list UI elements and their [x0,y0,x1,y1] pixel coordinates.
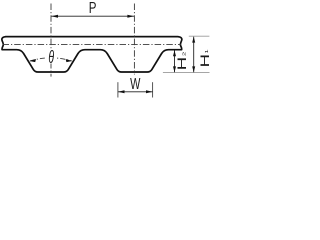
H1 top extension line [189,35,210,37]
baseline reference (tooth bottom level) [163,71,210,73]
arrowhead H2 bottom [173,66,176,72]
dimension line H1 [193,37,195,73]
pitch line (horizontal dash-dot) [3,44,182,46]
dimension line H2 [174,50,176,72]
svg-text:θ: θ [48,48,54,67]
theta label backing [47,50,56,64]
arrowhead W right [146,90,153,93]
svg-text:H2: H2 [176,51,189,70]
W extension line right [152,82,154,97]
theta dimension arc (dash-dot) [30,58,72,61]
arrowhead P right [127,15,134,18]
arrowhead H1 bottom [192,66,195,72]
W extension line left [117,82,119,97]
belt profile outline [2,37,182,72]
dimension line W [118,91,153,93]
centerline tooth 2 (vertical dash-dot) [133,4,135,75]
arrowhead W left [118,90,125,93]
arrowhead P left [51,15,58,18]
centerline tooth 1 (vertical dash-dot) [50,4,52,77]
dimension line P [51,15,134,17]
belt top edge [5,36,179,38]
arrowhead H1 top [192,37,195,43]
svg-text:P: P [89,0,97,17]
arrowhead theta left [29,59,36,62]
svg-text:H1: H1 [199,49,211,68]
arrowhead theta right [66,59,73,62]
svg-text:W: W [130,75,140,93]
arrowhead H2 top [173,50,176,56]
